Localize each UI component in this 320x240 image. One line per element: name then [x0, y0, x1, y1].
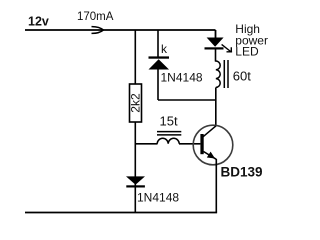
svg-text:BD139: BD139 [221, 165, 263, 180]
wire emitter down [215, 159, 217, 213]
wire LED cathode down [215, 49, 217, 61]
transistor Q1 BD139 circle [193, 125, 233, 165]
transistor emitter arrow [207, 152, 215, 159]
current direction arrow [92, 27, 104, 34]
wire top diode branch [157, 30, 159, 57]
wire LED branch from rail [215, 30, 217, 38]
svg-text:15t: 15t [160, 114, 178, 129]
svg-text:LED: LED [235, 45, 259, 59]
LED D3 (pointing down) [207, 38, 224, 47]
transformer core 60t [223, 60, 225, 88]
wire base left segment [135, 143, 157, 145]
svg-text:170mA: 170mA [77, 11, 114, 23]
inductor L1 60t winding [216, 60, 221, 87]
svg-text:2k2: 2k2 [128, 93, 142, 113]
wire top rail 12v [25, 29, 216, 31]
wire base right segment [179, 143, 200, 145]
wire anode to collector node [158, 99, 216, 101]
transformer core 15t [157, 131, 181, 133]
transistor base bar [200, 134, 203, 154]
svg-text:60t: 60t [233, 69, 251, 84]
diode D1 1N4148 top (cathode up) [149, 56, 170, 58]
LED light emission arrow [222, 44, 233, 52]
transistor collector slant [203, 126, 216, 137]
resistor R 2k2 [130, 84, 142, 122]
wire bottom rail [25, 212, 217, 214]
transistor emitter slant [204, 152, 217, 160]
svg-text:1N4148: 1N4148 [161, 71, 203, 85]
wire resistor to diode [134, 122, 136, 213]
svg-text:12v: 12v [28, 15, 49, 29]
svg-text:k: k [161, 42, 168, 56]
diode D2 1N4148 bottom (pointing down) [126, 176, 145, 184]
inductor L2 15t winding [157, 138, 179, 144]
wire 2k2 branch top [134, 30, 136, 84]
wire coil to collector [215, 88, 217, 127]
svg-text:1N4148: 1N4148 [137, 191, 179, 205]
wire diode anode down [157, 69, 159, 100]
